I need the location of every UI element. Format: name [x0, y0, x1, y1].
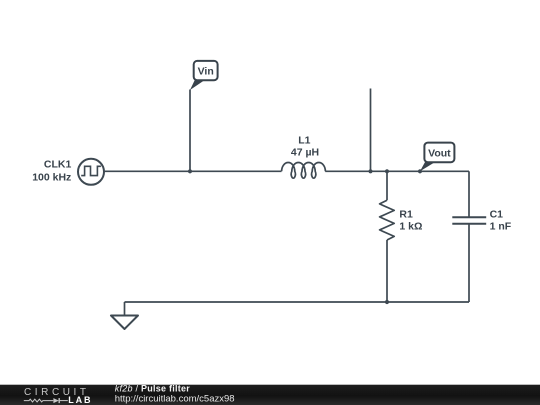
wire C1 to bottom rail [468, 224, 470, 302]
net flag Vin [190, 61, 218, 90]
wire stub above node [370, 89, 372, 172]
wire R1 to bottom rail [386, 240, 388, 302]
wire Vin node to L1 [190, 170, 282, 172]
wire L1 to corner above C1 [325, 170, 469, 172]
node R1 junction [385, 169, 389, 173]
svg-text:1 kΩ: 1 kΩ [399, 221, 422, 233]
svg-text:CLK1: CLK1 [44, 159, 72, 171]
svg-text:http://circuitlab.com/c5azx98: http://circuitlab.com/c5azx98 [115, 394, 235, 405]
wire corner down to C1 [468, 171, 470, 217]
svg-text:C1: C1 [490, 208, 504, 220]
node bottom rail junction [385, 300, 389, 304]
svg-text:100 kHz: 100 kHz [32, 171, 71, 183]
svg-text:R1: R1 [399, 208, 413, 220]
inductor L1 [282, 162, 326, 178]
svg-text:Vin: Vin [198, 65, 214, 77]
net flag Vout [420, 143, 454, 172]
logo schematic line: wire, resistor zigzag, diode [24, 399, 68, 402]
node stub junction [368, 169, 372, 173]
capacitor C1 [452, 217, 486, 224]
wire bottom rail [125, 301, 470, 303]
logo diode [53, 398, 58, 403]
footer bar [0, 385, 540, 405]
wire Vin flag drop [189, 90, 191, 172]
clock source CLK1 [78, 159, 104, 185]
svg-text:L1: L1 [298, 134, 310, 146]
svg-text:kf2b / Pulse filter: kf2b / Pulse filter [115, 383, 191, 393]
resistor R1 [380, 200, 395, 240]
svg-text:LAB: LAB [68, 395, 91, 405]
svg-text:Vout: Vout [428, 148, 451, 160]
svg-text:47 µH: 47 µH [291, 147, 319, 159]
node Vin junction [188, 169, 192, 173]
wire CLK1 to Vin node [104, 170, 190, 172]
svg-text:1 nF: 1 nF [490, 221, 512, 233]
ground [111, 316, 138, 330]
wire node to R1 [386, 171, 388, 200]
node Vout junction [418, 169, 422, 173]
wire to ground [124, 302, 126, 316]
